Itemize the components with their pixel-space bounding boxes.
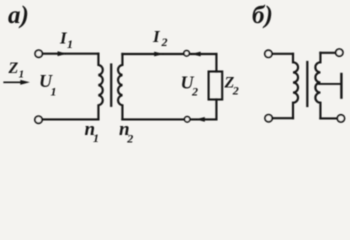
arrow (left-pointing) right of bottom terminal [196,117,205,122]
svg-text:2: 2 [161,35,168,49]
terminal circle b bottom-left [265,115,272,122]
wire: primary bottom wire [43,118,99,120]
wire: b tap [319,83,341,85]
arrow: Z1 input arrow [4,81,23,83]
wire: b top-right [320,52,335,54]
wire: b top-left [272,53,293,55]
core b [306,62,308,106]
svg-text:1: 1 [93,131,99,145]
svg-text:Z: Z [8,60,19,77]
wire: Z2 bottom stub [215,100,217,120]
svg-text:1: 1 [19,69,25,81]
terminal circle b bottom-right [337,115,344,122]
arrow I1 on primary top wire [58,51,67,56]
tap bar terminal [340,74,342,98]
terminal circle bottom-right [185,117,190,122]
wire: secondary top wire [122,53,216,55]
terminal circle b top-right [336,49,343,56]
wire: primary top wire [43,53,99,55]
winding b-left (bumps right) [293,54,298,118]
svg-text:2: 2 [126,132,133,146]
terminal circle top-left [35,50,42,57]
svg-text:а): а) [8,2,29,29]
svg-text:1: 1 [67,37,73,51]
resistor Z2 box [209,72,223,100]
terminal circle top-right [184,51,189,56]
svg-text:1: 1 [51,85,57,99]
core [110,65,112,106]
wire: primary left vertical + winding n1 (bumps right) [98,54,102,120]
winding b-right (bumps left) [315,53,320,119]
svg-text:2: 2 [232,84,239,98]
wire: secondary bottom wire [122,118,216,120]
svg-text:2: 2 [191,85,198,99]
wire: secondary right corner down to Z2 [215,54,217,72]
terminal circle b top-left [265,50,272,57]
svg-text:б): б) [252,2,273,29]
arrow (left-pointing) right of top terminal [191,52,200,57]
winding n2 secondary (bumps left) [118,54,122,119]
terminal circle bottom-left [35,116,42,123]
wire: b bottom-right [320,117,337,119]
wire: b bottom-left [273,117,293,119]
arrow I2 on secondary top wire [154,52,163,57]
